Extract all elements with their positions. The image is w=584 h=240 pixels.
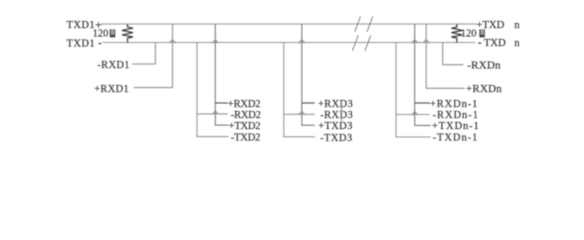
- wire break slash bottom bus 1: [352, 35, 358, 50]
- wire node n-1 minus vertical (bottom bus to -TXDn-1): [396, 43, 431, 138]
- value label ohm glyph left (dark blob): [110, 29, 115, 37]
- wire node2 plus vertical (top bus to +TXD2): [215, 24, 228, 125]
- svg-text:+TXD2: +TXD2: [229, 121, 261, 132]
- wire -RXD2 stub: [197, 113, 228, 115]
- wire node2 minus vertical (bottom bus to -TXD2): [197, 43, 229, 137]
- svg-text:-RXD2: -RXD2: [231, 110, 261, 121]
- svg-text:+RXDn: +RXDn: [466, 83, 502, 95]
- wire +RXDn vertical from top bus: [426, 24, 465, 88]
- svg-text:n: n: [514, 19, 520, 31]
- wire -RXDn-1 stub: [396, 114, 430, 116]
- svg-text:+RXDn-1: +RXDn-1: [430, 99, 478, 110]
- svg-text:120: 120: [93, 29, 109, 40]
- svg-text:-RXD3: -RXD3: [320, 110, 353, 121]
- junction hop -RXD2 over node2 plus vertical: [212, 111, 218, 114]
- wire -RXD1 stub: [132, 43, 155, 64]
- svg-text:+TXD3: +TXD3: [318, 121, 353, 132]
- wire +RXD3 stub: [302, 102, 315, 104]
- wire node3 minus vertical (bottom bus to -TXD3): [284, 43, 315, 137]
- junction hop +RXD1 over bottom bus: [169, 40, 175, 43]
- svg-text:TXD: TXD: [484, 37, 506, 49]
- wire top bus (+ line): [101, 23, 477, 25]
- wire node n-1 plus vertical (top bus to +TXDn-1): [415, 24, 431, 126]
- junction hop +RXDn vertical over bottom bus: [423, 40, 429, 43]
- resistor Rn 120 ohm terminator right: [451, 24, 462, 43]
- wire break slash top bus 1: [355, 16, 361, 32]
- svg-text:+RXD1: +RXD1: [94, 84, 129, 95]
- svg-text:+TXD: +TXD: [476, 19, 504, 31]
- value label ohm glyph right (dark blob): [479, 29, 484, 37]
- junction hop -RXD3 over node3 plus vertical: [299, 112, 305, 115]
- svg-text:+RXD3: +RXD3: [318, 99, 353, 110]
- svg-text:+TXDn-1: +TXDn-1: [432, 121, 480, 132]
- wire -RXDn stub: [443, 43, 464, 65]
- wire break slash bottom bus 2: [365, 35, 371, 50]
- svg-text:-RXDn: -RXDn: [467, 60, 501, 72]
- junction hop node2 plus vertical over bottom bus: [212, 40, 218, 43]
- svg-text:TXD1: TXD1: [67, 20, 95, 31]
- svg-text:-: -: [478, 37, 482, 49]
- svg-text:TXD1: TXD1: [67, 39, 95, 50]
- junction hop node3 plus vertical over bottom bus: [299, 40, 305, 43]
- svg-text:+RXD2: +RXD2: [228, 99, 261, 110]
- junction hop -RXDn-1 over node n-1 plus vertical: [412, 112, 418, 115]
- wire +RXDn-1 stub: [415, 102, 430, 104]
- resistor R1 120 ohm terminator left: [122, 24, 133, 43]
- wire bottom bus (- line): [103, 42, 476, 44]
- wire +RXD2 stub: [215, 102, 227, 104]
- svg-text:-RXDn-1: -RXDn-1: [433, 110, 479, 121]
- wire break slash top bus 2: [367, 16, 373, 32]
- svg-text:-TXD3: -TXD3: [320, 133, 352, 144]
- wire artifact stroke through -RXD3: [341, 101, 343, 121]
- junction hop node n-1 plus vertical over bottom bus: [412, 40, 418, 43]
- svg-text:n: n: [514, 37, 520, 49]
- svg-text:-TXDn-1: -TXDn-1: [433, 133, 479, 144]
- svg-text:120: 120: [461, 29, 477, 40]
- svg-text:-TXD2: -TXD2: [231, 133, 260, 144]
- wire node3 plus vertical (top bus to +TXD3): [302, 24, 315, 125]
- wire -RXD3 stub: [284, 113, 315, 115]
- wire +RXD1 vertical from top bus: [134, 24, 173, 88]
- svg-text:-RXD1: -RXD1: [97, 60, 129, 71]
